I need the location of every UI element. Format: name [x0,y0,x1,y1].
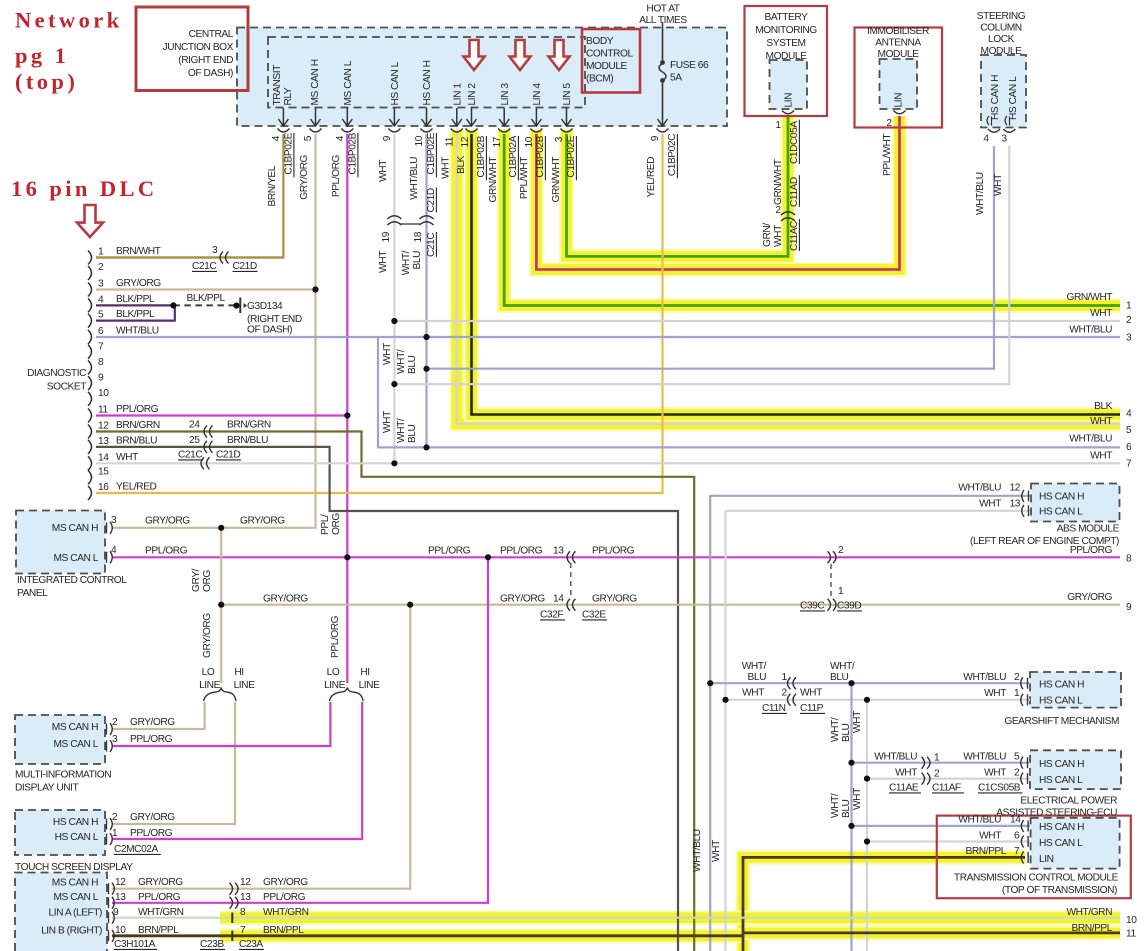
svg-text:10: 10 [414,135,425,146]
svg-text:WHT: WHT [979,499,1001,510]
junction at 867,778.6 [864,776,870,782]
svg-text:HS CAN H: HS CAN H [53,817,98,828]
wire WHT steering column lock [394,146,1009,384]
svg-text:C1BP02E: C1BP02E [566,135,577,177]
wire BRN/PPL row11 [743,932,1120,935]
svg-text:WHT/BLU: WHT/BLU [1069,325,1112,336]
module U11 Touch Screen Display box [15,810,105,855]
svg-text:GRY/ORG: GRY/ORG [202,613,213,658]
svg-text:MS CAN L: MS CAN L [53,739,98,750]
svg-text:12: 12 [1010,483,1021,494]
svg-text:WHT/BLU: WHT/BLU [692,829,703,872]
wire PPL/ORG CJB pin4 vertical [346,134,348,683]
svg-text:BRN/BLU: BRN/BLU [227,435,268,446]
svg-text:(top): (top) [15,69,78,94]
svg-text:G3D134: G3D134 [247,301,283,312]
svg-text:MODULE: MODULE [981,46,1023,57]
svg-text:10: 10 [115,925,126,936]
svg-text:SOCKET: SOCKET [47,382,86,393]
svg-text:SYSTEM: SYSTEM [766,38,805,49]
wire WHT/BLU branch row6 [378,337,1120,447]
marker arrow LIN2 [464,40,485,70]
svg-text:ORG: ORG [331,513,342,535]
junction at 347.3,557.3 [344,554,350,560]
svg-text:5A: 5A [670,73,682,84]
svg-text:BRN/GRN: BRN/GRN [116,420,160,431]
svg-text:WHT: WHT [852,711,863,733]
svg-text:5: 5 [303,135,314,141]
svg-text:GRN/: GRN/ [762,223,773,247]
svg-text:BRN/WHT: BRN/WHT [116,246,161,257]
junction at 410.2,604.7 [407,602,413,608]
svg-text:PPL/ORG: PPL/ORG [263,892,306,903]
svg-text:C23A: C23A [239,939,263,950]
module U1 Central Junction Box inner box [268,37,585,108]
svg-text:WHT: WHT [984,768,1006,779]
svg-text:LIN 3: LIN 3 [500,83,511,106]
svg-text:GRY/ORG: GRY/ORG [240,516,285,527]
svg-text:3: 3 [112,734,118,745]
svg-text:BRN/BLU: BRN/BLU [116,435,157,446]
svg-text:DISPLAY UNIT: DISPLAY UNIT [15,783,79,794]
svg-text:6: 6 [1014,831,1020,842]
wire PPL/ORG MS CAN L row8 [112,556,1120,558]
svg-text:MS CAN H: MS CAN H [52,523,98,534]
svg-text:C2MC02A: C2MC02A [114,844,158,855]
wire WHT row2 [394,320,1120,322]
callout box Immobiliser Antenna Module [855,28,943,128]
svg-text:HS CAN L: HS CAN L [1039,507,1083,518]
junction at 394.4,321 [391,318,397,324]
svg-text:LIN 1: LIN 1 [453,83,464,106]
svg-text:GRY/ORG: GRY/ORG [592,594,637,605]
svg-text:PPL/ORG: PPL/ORG [331,154,342,197]
svg-text:COLUMN: COLUMN [980,23,1022,34]
svg-text:LO: LO [202,667,215,678]
svg-text:8: 8 [1126,553,1132,564]
connector C23B/C23A pin12 [230,883,239,895]
svg-text:3: 3 [554,136,565,142]
svg-text:C32E: C32E [582,610,606,621]
svg-text:LINE: LINE [234,680,256,691]
junction at 426.5,447.4 [423,444,429,450]
svg-text:1: 1 [98,247,104,258]
svg-text:YEL/RED: YEL/RED [116,482,157,493]
connector C21C/C21D pin WHT [201,457,210,469]
svg-text:1: 1 [1126,301,1132,312]
svg-text:STEERING: STEERING [977,11,1026,22]
svg-text:INTEGRATED CONTROL: INTEGRATED CONTROL [17,575,127,586]
junction at 394.4,463.3 [391,460,397,466]
CJB pin arrow at x=315.5 [315,108,317,125]
svg-text:HS CAN H: HS CAN H [1039,680,1084,691]
svg-text:HS CAN L: HS CAN L [390,61,401,105]
svg-text:7: 7 [1126,458,1132,469]
connector C39C/C39D pin1 [828,599,837,611]
svg-text:WHT/BLU: WHT/BLU [116,326,159,337]
svg-text:BLU: BLU [412,251,423,270]
wire PPL/ORG LO LINE [112,702,330,746]
svg-text:WHT: WHT [742,688,764,699]
wire WHT/BLU DLC pin6 row3 [96,336,1120,338]
svg-text:1: 1 [1014,688,1020,699]
svg-text:PPL/ORG: PPL/ORG [130,828,173,839]
svg-text:C1BP02A: C1BP02A [508,135,519,177]
svg-text:WHT: WHT [852,788,863,810]
wire PPL/WHT LIN4 to immobiliser [536,116,899,270]
svg-text:BLU: BLU [830,672,849,683]
svg-text:C11N: C11N [762,703,786,714]
svg-text:C11AC: C11AC [789,221,800,251]
svg-text:GRY/ORG: GRY/ORG [263,594,308,605]
connector C23B/C23A pin13 [230,897,239,909]
svg-text:LIN A (LEFT): LIN A (LEFT) [49,908,103,919]
wire WHT/BLU vertical bus [850,683,852,951]
junction at 315.5,289.5 [312,286,318,292]
svg-text:BLU: BLU [841,799,852,818]
svg-text:C23B: C23B [200,939,224,950]
svg-text:C1DC05A: C1DC05A [789,121,800,164]
svg-text:C39C: C39C [800,601,824,612]
highlight BRN/PPL LIN B wire [220,929,743,944]
svg-text:5: 5 [1014,752,1020,763]
svg-text:13: 13 [98,436,109,447]
svg-text:WHT/: WHT/ [830,793,841,818]
svg-text:12: 12 [98,421,109,432]
svg-text:HS CAN H: HS CAN H [1039,822,1084,833]
wire WHT LIN1 to row5 [457,134,1120,424]
svg-text:WHT/BLU: WHT/BLU [963,672,1006,683]
connector C21C/C21D pin24 [204,426,213,438]
svg-text:2: 2 [1126,315,1132,326]
ABS pins 12 13 [1022,490,1024,502]
svg-text:PPL/ORG: PPL/ORG [130,734,173,745]
svg-text:4: 4 [983,134,989,145]
svg-text:(RIGHT END: (RIGHT END [247,314,302,325]
svg-text:WHT: WHT [116,452,138,463]
wire PPL/ORG touch screen pin13 [112,557,488,903]
svg-text:11: 11 [445,136,456,146]
svg-text:12: 12 [240,877,251,888]
svg-text:C1CS05B: C1CS05B [978,783,1021,794]
svg-text:2: 2 [934,769,940,780]
svg-text:WHT/: WHT/ [830,661,855,672]
svg-text:GRY/ORG: GRY/ORG [500,594,545,605]
module U4 Steering Column Lock Module box [981,55,1026,128]
touch screen pins 2 1 [106,819,108,830]
connector C32F/C32E pin13 [567,551,576,563]
svg-text:C1BP02B: C1BP02B [535,135,546,177]
svg-text:WHT: WHT [378,251,389,273]
svg-text:ANTENNA: ANTENNA [875,38,921,49]
module U3 Immobiliser Antenna inner box [880,59,918,109]
fuse F66 5A [660,60,665,65]
wire BLK/PPL DLC pin4 [96,304,173,306]
wire WHT/BLU EPAS HS CAN H [852,762,1031,764]
svg-text:WHT/: WHT/ [396,418,407,443]
connector C11AE/C11AF pin1 [922,757,931,769]
wire fuse feed [662,22,664,60]
connector C21C/C21D pin25 [204,441,213,453]
svg-text:HOT AT: HOT AT [646,4,679,15]
junction at 221.2,604.7 [218,602,224,608]
svg-text:3: 3 [111,515,117,526]
svg-text:GRN/WHT: GRN/WHT [551,157,562,203]
marker arrow DLC [77,205,103,237]
module U2 Battery Monitoring System inner box [770,60,808,109]
svg-text:FUSE 66: FUSE 66 [670,60,709,71]
svg-text:PANEL: PANEL [17,588,48,599]
svg-text:4: 4 [1126,409,1132,420]
junction at 426.5,368.8 [423,366,429,372]
svg-text:JUNCTION BOX: JUNCTION BOX [163,42,234,53]
svg-text:GRY/ORG: GRY/ORG [299,154,310,199]
svg-text:GRY/ORG: GRY/ORG [130,717,175,728]
junction at 867,841.5 [864,838,870,844]
highlight LIN3 wire [504,130,1120,306]
svg-text:2: 2 [838,545,844,556]
svg-text:1: 1 [934,753,940,764]
svg-text:WHT/: WHT/ [396,349,407,374]
callout box Body Control Module BCM [582,29,640,93]
wire GRY/ORG HI LINE [112,702,235,824]
ICP pins 3 4 [106,522,108,533]
svg-text:MODULE: MODULE [878,49,920,60]
svg-text:8: 8 [240,907,246,918]
svg-text:2: 2 [782,688,788,699]
wire WHT HS CAN L vertical [393,134,395,463]
svg-text:WHT/GRN: WHT/GRN [1066,907,1112,918]
svg-text:C21D: C21D [216,450,240,461]
highlight WHT/GRN LIN A wire [220,910,1120,925]
svg-text:GRY/ORG: GRY/ORG [138,877,183,888]
module pin brackets [782,111,794,114]
svg-text:BRN/PPL: BRN/PPL [263,925,304,936]
junction at 394.4,384.1 [391,381,397,387]
highlight TCM LIN wire [743,857,1025,951]
connector C21C/C21D pin18 [420,216,434,225]
CJB pin arrow at x=283.4 [282,108,284,125]
svg-text:Network: Network [15,8,123,33]
svg-text:HS CAN L: HS CAN L [1039,775,1083,786]
svg-text:BRN/PPL: BRN/PPL [966,846,1007,857]
svg-text:14: 14 [553,594,564,605]
highlight LIN5 wire [567,116,789,256]
svg-text:3: 3 [98,279,104,290]
junction at 725.5,699.8 [722,697,728,703]
junction at 426.5,337 [423,334,429,340]
svg-text:25: 25 [189,435,200,446]
svg-text:BLK/PPL: BLK/PPL [116,294,155,305]
svg-text:2: 2 [1014,672,1020,683]
svg-text:14: 14 [98,452,109,463]
svg-text:LINE: LINE [324,680,346,691]
svg-text:GRY/ORG: GRY/ORG [263,877,308,888]
svg-text:(BCM): (BCM) [586,74,613,85]
svg-text:WHT/: WHT/ [742,661,767,672]
svg-text:18: 18 [413,231,424,242]
svg-text:10: 10 [98,388,109,399]
wire BRN/GRN DLC pin12 [96,432,694,951]
svg-text:ABS MODULE: ABS MODULE [1057,524,1120,535]
svg-text:C11P: C11P [800,703,824,714]
svg-text:BRN/PPL: BRN/PPL [138,925,179,936]
wire GRY/ORG MS CAN H row9 [221,604,1120,606]
svg-text:24: 24 [189,420,200,431]
svg-text:ALL TIMES: ALL TIMES [639,15,687,26]
svg-text:MS CAN H: MS CAN H [310,59,321,105]
svg-text:LIN: LIN [1039,854,1054,865]
module U6 Gearshift Mechanism box [1030,672,1121,708]
svg-text:GRY/ORG: GRY/ORG [145,516,190,527]
wire WHT vertical bus [866,700,868,951]
svg-text:GRY/ORG: GRY/ORG [1067,592,1112,603]
svg-text:WHT: WHT [979,831,1001,842]
wire WHT/BLU steering column lock [427,146,995,369]
marker arrow LIN5 [549,40,570,70]
module U8 Transmission Control Module inner box [1031,818,1120,869]
svg-text:GRN/WHT: GRN/WHT [773,159,784,205]
connector C11AE/C11AF pin2 [922,773,931,785]
marker arrow LIN3 [510,40,531,70]
svg-text:3: 3 [1001,134,1007,145]
svg-text:WHT: WHT [895,768,917,779]
module U12 Touch Screen Display lower connector box [15,873,107,951]
wire BRN/YEL CJB pin4 to DLC pin1 [96,134,283,258]
CJB pin arrow at x=566.5 [566,108,568,125]
svg-text:PPL/WHT: PPL/WHT [882,134,893,176]
EPAS pins 5 2 [1021,757,1023,769]
svg-text:LIN: LIN [784,93,795,108]
connector C21C/C21D pin1 [220,252,229,264]
svg-text:7: 7 [1014,846,1020,857]
multi-info pins 2 3 [106,724,108,735]
svg-text:MODULE: MODULE [586,61,628,72]
svg-text:LINE: LINE [359,680,381,691]
svg-text:6: 6 [98,326,104,337]
module U1 Central Junction Box outer box [237,28,727,127]
svg-text:LIN 5: LIN 5 [562,83,573,106]
svg-text:WHT: WHT [993,174,1004,196]
svg-text:WHT/BLU: WHT/BLU [958,815,1001,826]
svg-text:MS CAN L: MS CAN L [343,60,354,105]
svg-text:C21C: C21C [426,233,437,257]
svg-text:PPL/WHT: PPL/WHT [519,157,530,199]
wire BRN/WHT DLC pin1 [96,256,283,258]
svg-text:2: 2 [112,717,118,728]
svg-text:2: 2 [775,205,781,216]
svg-text:9: 9 [98,373,104,384]
CJB pin arrow at x=347.3 [346,108,348,125]
junction at 347.3,415.5 [344,412,350,418]
svg-text:HS CAN H: HS CAN H [1039,492,1084,503]
svg-text:WHT: WHT [441,157,452,179]
wire GRY/ORG CJB pin5 to ICP pin3 [112,134,316,528]
svg-text:C39D: C39D [837,601,861,612]
svg-text:(LEFT REAR OF ENGINE COMPT): (LEFT REAR OF ENGINE COMPT) [970,536,1119,547]
svg-text:12: 12 [460,136,471,147]
svg-text:TRANSIT: TRANSIT [272,65,283,106]
svg-text:TOUCH SCREEN DISPLAY: TOUCH SCREEN DISPLAY [15,862,133,873]
TCM pins 14 6 7 [1021,820,1023,832]
svg-text:GRN/WHT: GRN/WHT [488,157,499,203]
svg-text:9: 9 [113,907,119,918]
wire BRN/PPL TCM LIN [743,857,1025,951]
svg-text:BATTERY: BATTERY [765,12,809,23]
module U10 Multi-Information Display Unit box [15,715,105,764]
connector C39C/C39D pin2 [828,551,837,563]
wire BLK/PPL dashed to ground [173,304,236,306]
svg-text:C1BP02C: C1BP02C [667,134,678,176]
svg-text:CONTROL: CONTROL [586,49,633,60]
junction at 710.2,683.2 [707,680,713,686]
wire BRN/BLU DLC pin13 [96,447,678,951]
wire WHT EPAS HS CAN L [867,777,1030,779]
svg-text:WHT: WHT [773,225,784,247]
svg-text:WHT: WHT [378,160,389,182]
svg-text:BLU: BLU [841,723,852,742]
svg-text:5: 5 [1126,425,1132,436]
svg-text:C32F: C32F [540,610,563,621]
junction at 851.5,825.9 [848,823,854,829]
junction at 867,699.8 [864,697,870,703]
svg-text:9: 9 [382,135,393,141]
svg-text:pg 1: pg 1 [15,43,69,68]
wire BLK LIN2 to row4 [472,134,1121,415]
svg-text:11: 11 [1126,928,1136,939]
connector C11N/C11P pin2 [788,694,797,706]
wire GRY/ORG LO LINE [112,702,205,729]
svg-text:(TOP OF TRANSMISSION): (TOP OF TRANSMISSION) [1002,885,1117,896]
svg-text:BLK/PPL: BLK/PPL [187,293,226,304]
wire GRY/ORG touch screen pin12 [112,605,410,889]
svg-text:MONITORING: MONITORING [755,25,817,36]
svg-text:C1BP02E: C1BP02E [284,132,295,174]
CJB pin arrow at x=456.8 [456,108,458,125]
highlight BRN/PPL row 11 [743,926,1120,941]
svg-text:TRANSMISSION CONTROL MODULE: TRANSMISSION CONTROL MODULE [954,873,1119,884]
svg-text:GEARSHIFT MECHANISM: GEARSHIFT MECHANISM [1004,716,1119,727]
module U5 ABS Module box [1031,484,1120,522]
svg-text:OF DASH): OF DASH) [247,325,292,336]
svg-text:BRN/GRN: BRN/GRN [227,420,271,431]
svg-text:10: 10 [1126,915,1137,926]
svg-text:WHT: WHT [1090,416,1112,427]
svg-text:OF DASH): OF DASH) [188,68,233,79]
svg-text:PPL/ORG: PPL/ORG [592,546,635,557]
svg-text:GRY/: GRY/ [191,568,202,592]
svg-text:LIN B (RIGHT): LIN B (RIGHT) [41,926,102,937]
svg-text:13: 13 [115,892,126,903]
svg-text:2: 2 [886,118,892,129]
svg-text:C11AE: C11AE [889,783,919,794]
svg-text:YEL/RED: YEL/RED [646,157,657,198]
touch screen pins 12 13 9 10 [108,883,110,894]
svg-text:BLU: BLU [748,672,767,683]
wire GRY/ORG vertical to splice [220,528,222,683]
highlight LIN4 wire [536,116,899,270]
svg-text:BLK: BLK [1094,401,1113,412]
svg-text:3: 3 [212,245,218,256]
connector C11N/C11P pin1 [788,677,797,689]
svg-text:19: 19 [381,231,392,242]
svg-text:BRN/PPL: BRN/PPL [1072,923,1113,934]
svg-text:CENTRAL: CENTRAL [189,29,234,40]
svg-text:16: 16 [98,482,109,493]
svg-text:LIN: LIN [894,93,905,108]
junction at 236.5,305.6 [233,303,239,309]
wire PPL/ORG DLC pin11 [96,414,347,416]
